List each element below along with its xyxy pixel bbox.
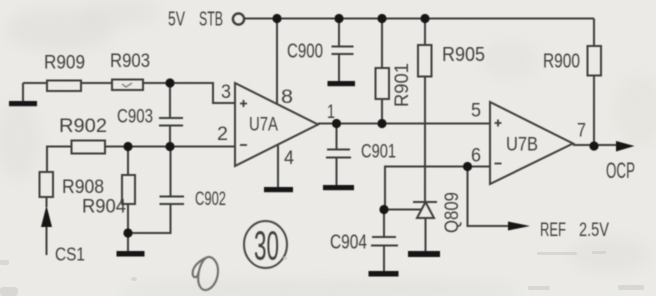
svg-text:2.5V: 2.5V <box>579 220 609 241</box>
wire 5V STB top rail <box>245 18 594 20</box>
wire pin8 stub <box>276 19 278 105</box>
svg-text:R909: R909 <box>44 53 85 74</box>
ground under Q809 <box>408 251 440 257</box>
junction top rail R901 <box>377 14 386 23</box>
op-amp U7B plus input <box>495 120 502 127</box>
ground under R904/C902 <box>117 233 145 257</box>
svg-text:4: 4 <box>284 148 294 169</box>
svg-text:6: 6 <box>471 146 481 167</box>
arrow REF 2.5V <box>508 222 530 231</box>
resistor R902 <box>72 141 106 154</box>
input CS1 arrow <box>41 197 52 255</box>
wire U7A output to U7B pin5 <box>318 123 490 125</box>
arrow OCP <box>616 141 635 152</box>
faint scan smudges <box>0 251 644 296</box>
svg-text:R908: R908 <box>62 177 104 198</box>
junction R901 bottom <box>377 119 386 128</box>
ground under C904 <box>369 271 399 277</box>
junction C903 bottom <box>165 142 174 151</box>
svg-text:R904: R904 <box>82 197 126 218</box>
svg-text:REF: REF <box>540 220 566 241</box>
resistor R909 <box>47 81 81 92</box>
resistor R904 <box>122 175 135 204</box>
resistor R905 <box>418 45 432 77</box>
junction top rail R905 <box>420 14 429 23</box>
svg-text:R901: R901 <box>392 63 413 107</box>
wire between R909 and R903 <box>81 82 112 84</box>
resistor R903 <box>112 80 143 91</box>
wire pin6 rail <box>385 167 490 210</box>
wire R904 top <box>127 147 129 176</box>
op-amp U7A minus input <box>240 144 247 146</box>
svg-text:C902: C902 <box>195 189 226 210</box>
handwritten zero mark <box>193 257 218 290</box>
svg-text:R900: R900 <box>543 51 580 73</box>
capacitor C901 <box>326 124 351 186</box>
wire pin7 output <box>573 144 617 146</box>
resistor R901 <box>376 68 390 99</box>
svg-text:OCP: OCP <box>606 158 635 183</box>
junction pin6 node <box>463 162 472 171</box>
capacitor C903 <box>159 83 183 146</box>
svg-text:U7B: U7B <box>506 135 538 156</box>
wire R904 bottom <box>127 204 129 233</box>
svg-text:R905: R905 <box>442 44 485 66</box>
ground under U7A pin4 <box>264 187 293 192</box>
node 5V_STB terminal <box>233 13 244 24</box>
scan tick inside R903 <box>122 83 132 87</box>
junction zener node <box>379 205 388 214</box>
wire zener node horizontal <box>384 209 421 211</box>
ground under C900 <box>328 81 356 86</box>
ground far left <box>9 83 37 106</box>
svg-text:U7A: U7A <box>249 115 278 136</box>
capacitor C902 <box>128 147 184 234</box>
svg-text:2: 2 <box>217 124 228 145</box>
wire R902 left corner down <box>47 147 72 173</box>
svg-text:CS1: CS1 <box>55 245 85 265</box>
svg-text:Q809: Q809 <box>442 192 463 233</box>
wire left input rail <box>23 82 47 84</box>
junction pin7 node <box>589 141 598 150</box>
junction C901 top <box>332 119 341 128</box>
junction top rail C900 <box>334 14 343 23</box>
svg-text:5: 5 <box>471 101 481 122</box>
svg-text:8: 8 <box>281 87 293 108</box>
resistor R900 <box>588 46 602 76</box>
wire R905 top drop <box>424 19 426 46</box>
wire R905 bottom to zener <box>424 77 426 203</box>
op-amp U7A <box>235 83 318 166</box>
svg-text:1: 1 <box>327 102 335 123</box>
wire REF output <box>468 167 510 227</box>
op-amp U7B minus input <box>495 163 502 165</box>
wire R901 top drop <box>381 19 383 69</box>
svg-text:5V: 5V <box>168 9 185 31</box>
svg-text:7: 7 <box>577 121 586 142</box>
sheet number 30 circle <box>244 221 287 269</box>
op-amp U7A plus input <box>240 100 247 107</box>
wire pin4 stub <box>277 146 279 188</box>
svg-text:STB: STB <box>199 9 223 31</box>
capacitor C900 <box>332 19 354 82</box>
svg-text:30: 30 <box>254 223 279 269</box>
wire R900 bottom to pin7 node <box>593 76 595 147</box>
junction R904 bottom <box>123 228 132 237</box>
capacitor C904 <box>371 210 398 272</box>
svg-text:R903: R903 <box>110 51 150 72</box>
wire R901 bottom <box>381 99 383 124</box>
ground under C901 <box>323 185 354 190</box>
junction R904 top <box>123 142 132 151</box>
svg-text:C904: C904 <box>330 232 367 254</box>
svg-text:3: 3 <box>221 82 231 103</box>
wire pin2 rail <box>105 146 235 148</box>
svg-text:R902: R902 <box>59 116 107 137</box>
op-amp U7B <box>490 102 573 184</box>
wire R903 to pin3 corner <box>143 83 235 103</box>
resistor R908 <box>40 172 54 197</box>
svg-text:C901: C901 <box>361 142 396 163</box>
junction top rail pin8 <box>272 14 281 23</box>
zener diode Q809 <box>413 202 437 251</box>
svg-text:C903: C903 <box>117 107 153 128</box>
wire R900 top drop <box>593 19 595 47</box>
junction C903 top <box>165 78 174 87</box>
svg-text:C900: C900 <box>287 41 323 63</box>
